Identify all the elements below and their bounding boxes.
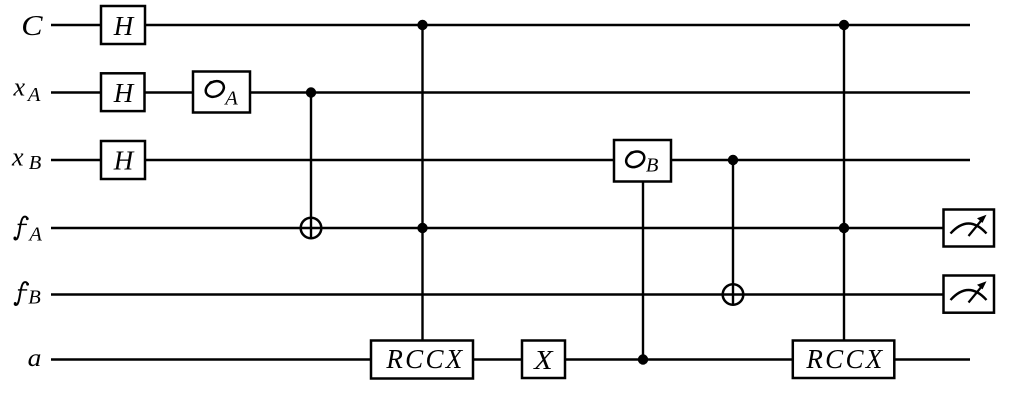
- svg-text:H: H: [113, 78, 135, 108]
- measurement meter on fA: [944, 210, 995, 247]
- node label fB: [14, 282, 29, 305]
- svg-text:C: C: [21, 9, 43, 41]
- control dot on fA (RCCX1): [417, 223, 427, 233]
- gate X on a: [522, 341, 565, 379]
- gate H on xA: [101, 73, 145, 111]
- control dot on xB: [728, 155, 738, 165]
- wire C: [51, 24, 970, 26]
- control dot on a (OB): [638, 354, 648, 364]
- gate H on C: [101, 6, 145, 44]
- wire fB: [51, 293, 944, 295]
- svg-text:B: B: [29, 152, 42, 174]
- gate H on xB: [101, 141, 145, 179]
- svg-text:A: A: [223, 87, 238, 109]
- wire CNOT1 vertical: [310, 93, 312, 240]
- wire RCCX1 vertical: [421, 25, 423, 341]
- svg-text:A: A: [26, 84, 41, 106]
- gate OA on xA: [193, 72, 250, 113]
- wire xA: [51, 91, 970, 93]
- svg-text:RCCX: RCCX: [805, 344, 884, 374]
- svg-text:a: a: [28, 344, 42, 372]
- wire fA: [51, 227, 944, 229]
- svg-text:x: x: [11, 143, 24, 172]
- svg-text:RCCX: RCCX: [385, 344, 464, 374]
- CNOT1 target on fA: [301, 218, 322, 239]
- svg-text:H: H: [113, 11, 135, 41]
- node label fA: [14, 217, 29, 240]
- CNOT2 target on fB: [723, 284, 744, 305]
- gate RCCX2 on a: [793, 341, 895, 379]
- control dot on xA: [306, 87, 316, 97]
- gate RCCX1 on a: [371, 341, 473, 379]
- gate OB on xB: [614, 140, 671, 182]
- wire OB control vertical: [642, 182, 644, 360]
- wire CNOT2 vertical: [732, 160, 734, 306]
- control dot on C (RCCX2): [839, 20, 849, 30]
- svg-text:B: B: [28, 287, 41, 309]
- control dot on fA (RCCX2): [839, 223, 849, 233]
- svg-text:X: X: [533, 346, 554, 376]
- svg-text:A: A: [27, 223, 42, 245]
- wire RCCX2 vertical: [843, 25, 845, 341]
- measurement meter on fB: [944, 276, 995, 313]
- wire a: [51, 358, 970, 360]
- svg-text:H: H: [113, 146, 135, 176]
- svg-text:B: B: [646, 155, 659, 177]
- control dot on C (RCCX1): [417, 20, 427, 30]
- wire xB: [51, 159, 970, 161]
- svg-text:x: x: [12, 73, 25, 102]
